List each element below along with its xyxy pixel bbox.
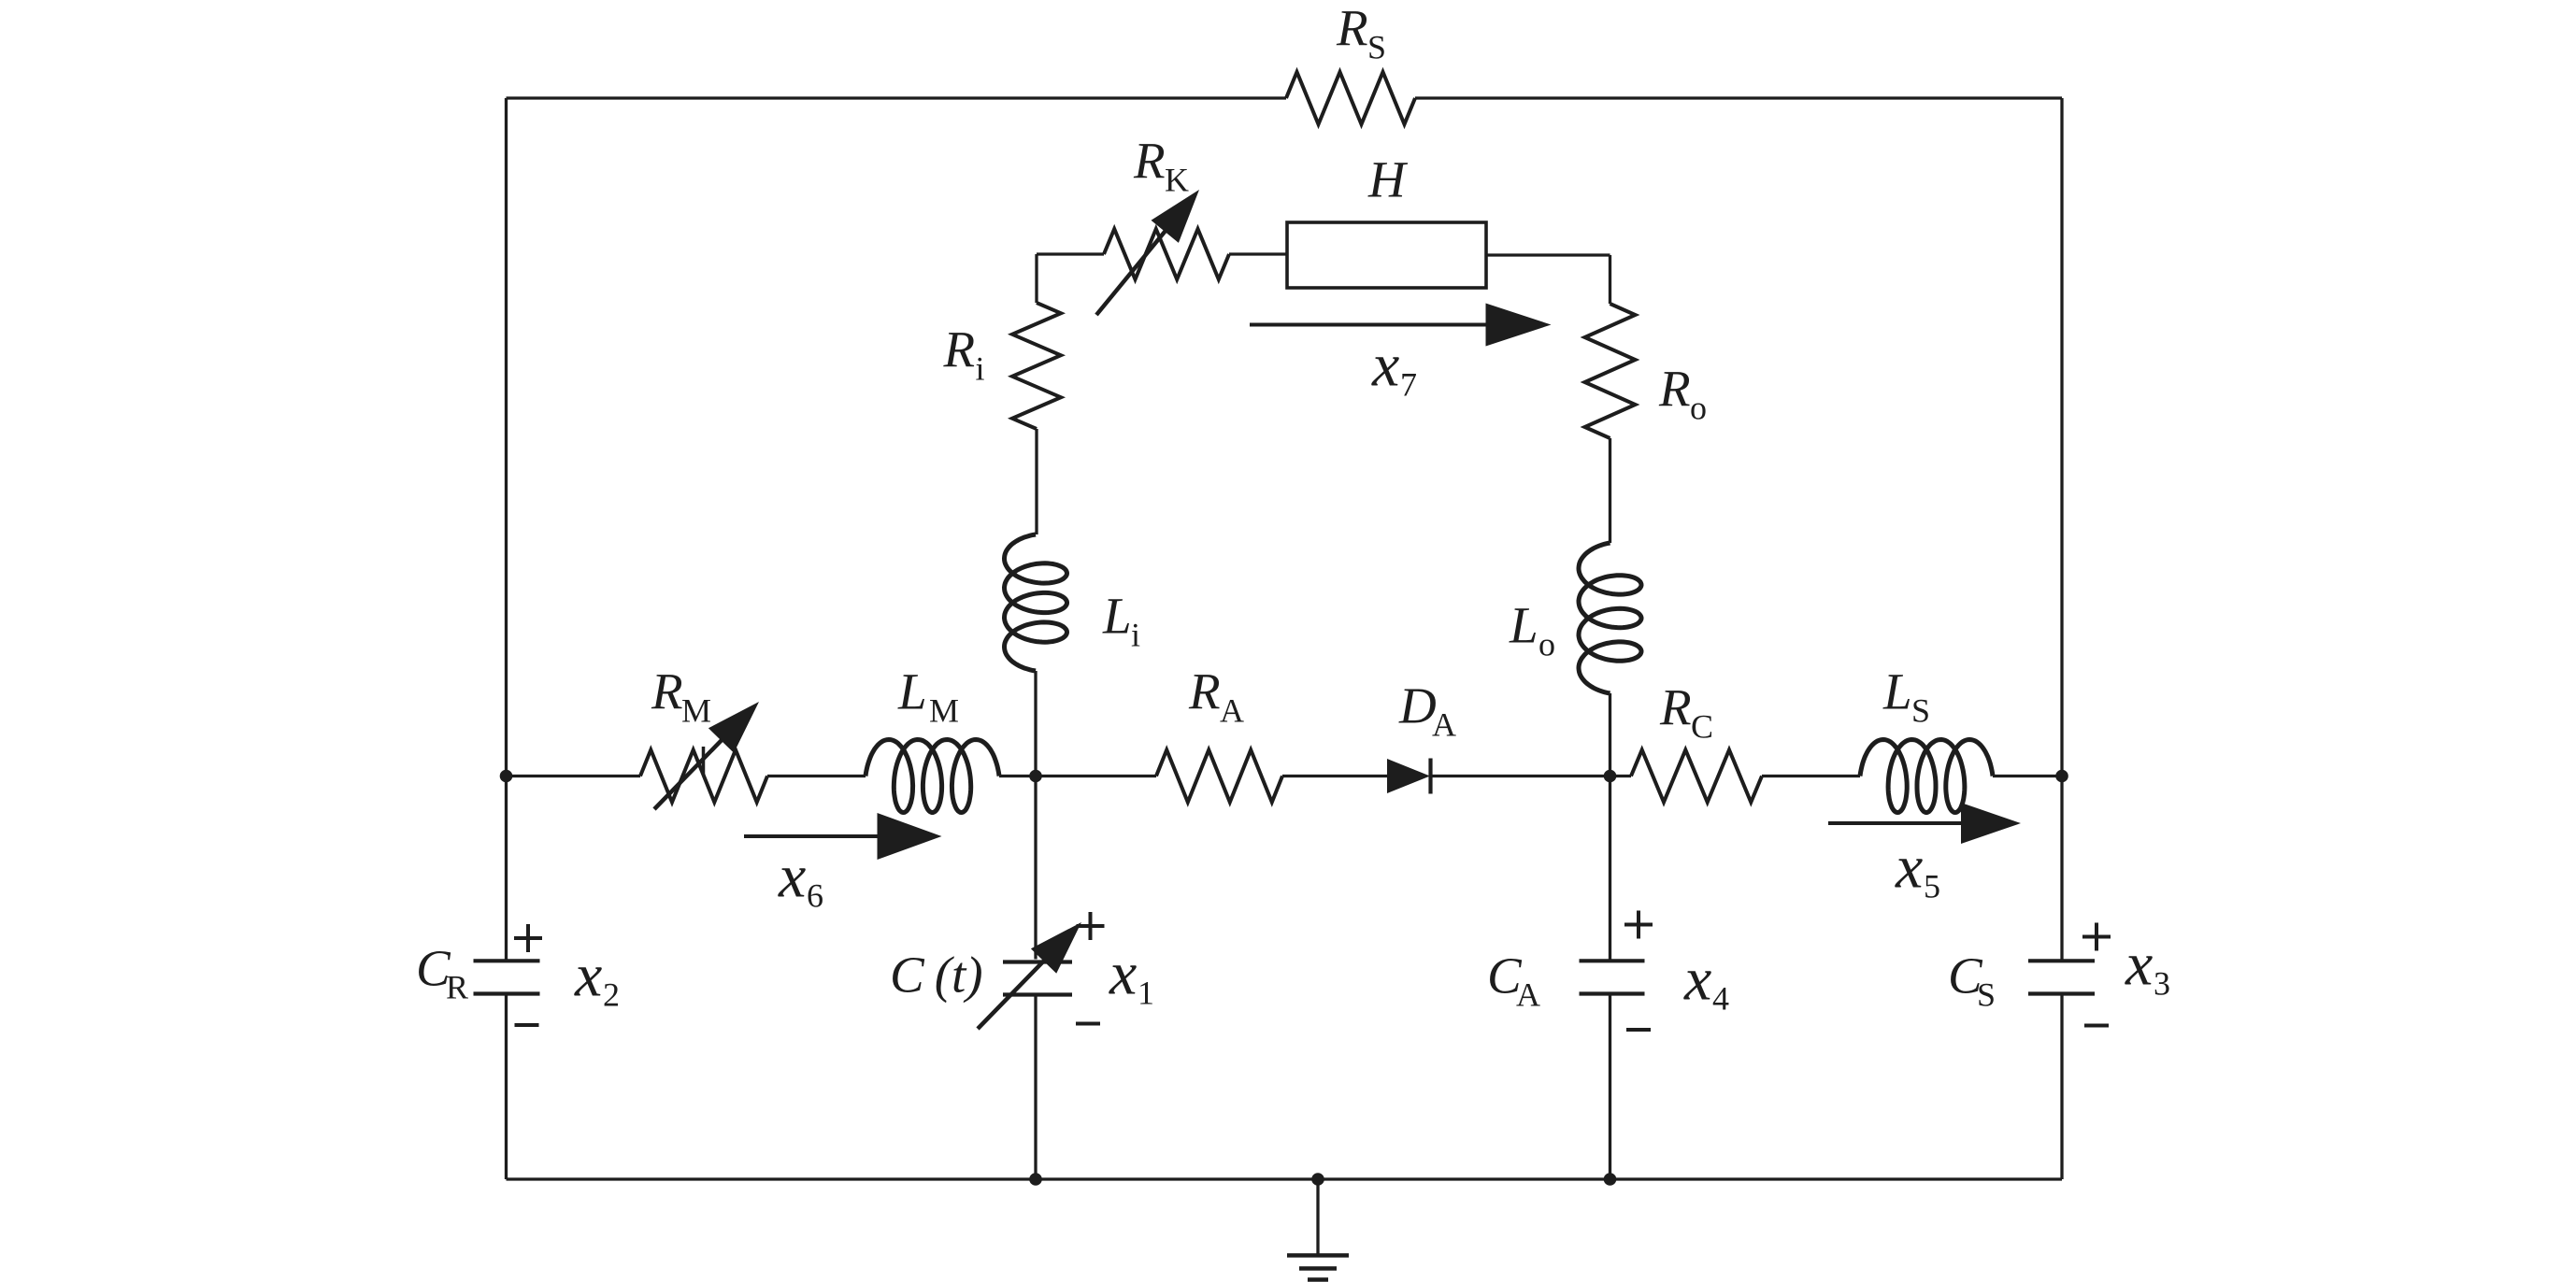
svg-text:i: i bbox=[1131, 616, 1140, 653]
svg-text:x: x bbox=[2125, 931, 2153, 999]
svg-text:S: S bbox=[1367, 28, 1386, 65]
svg-text:x: x bbox=[574, 942, 602, 1010]
svg-text:R: R bbox=[1659, 678, 1692, 735]
svg-text:R: R bbox=[446, 968, 468, 1005]
svg-text:i: i bbox=[976, 349, 985, 387]
svg-text:L: L bbox=[897, 662, 927, 719]
svg-text:L: L bbox=[1102, 587, 1132, 644]
svg-text:7: 7 bbox=[1400, 366, 1417, 404]
svg-text:x: x bbox=[1895, 833, 1923, 902]
svg-text:x: x bbox=[1683, 946, 1711, 1014]
svg-text:R: R bbox=[1658, 360, 1691, 417]
svg-text:2: 2 bbox=[603, 976, 620, 1014]
svg-text:L: L bbox=[1882, 662, 1912, 719]
svg-text:D: D bbox=[1398, 677, 1437, 734]
svg-text:4: 4 bbox=[1712, 980, 1729, 1018]
svg-text:C: C bbox=[1691, 707, 1713, 745]
svg-text:H: H bbox=[1367, 150, 1409, 207]
svg-text:R: R bbox=[1188, 662, 1221, 719]
svg-text:A: A bbox=[1432, 705, 1456, 743]
svg-text:R: R bbox=[651, 662, 683, 719]
svg-text:x: x bbox=[1109, 940, 1137, 1008]
svg-text:C (t): C (t) bbox=[890, 946, 983, 1003]
svg-text:R: R bbox=[1133, 132, 1166, 189]
svg-text:R: R bbox=[1336, 0, 1368, 56]
svg-text:A: A bbox=[1516, 976, 1540, 1013]
svg-text:R: R bbox=[943, 320, 976, 377]
svg-text:K: K bbox=[1165, 161, 1189, 198]
svg-text:S: S bbox=[1977, 976, 1996, 1013]
svg-text:1: 1 bbox=[1138, 975, 1154, 1012]
svg-text:6: 6 bbox=[807, 877, 823, 915]
svg-text:L: L bbox=[1509, 596, 1538, 653]
svg-text:o: o bbox=[1538, 625, 1555, 662]
svg-text:A: A bbox=[1220, 691, 1244, 729]
svg-text:x: x bbox=[778, 843, 806, 911]
svg-text:M: M bbox=[681, 691, 711, 729]
svg-text:S: S bbox=[1911, 691, 1930, 729]
svg-text:x: x bbox=[1371, 332, 1399, 400]
svg-text:M: M bbox=[929, 691, 959, 729]
svg-text:3: 3 bbox=[2154, 965, 2170, 1003]
svg-text:5: 5 bbox=[1924, 868, 1940, 905]
svg-text:o: o bbox=[1690, 389, 1707, 426]
